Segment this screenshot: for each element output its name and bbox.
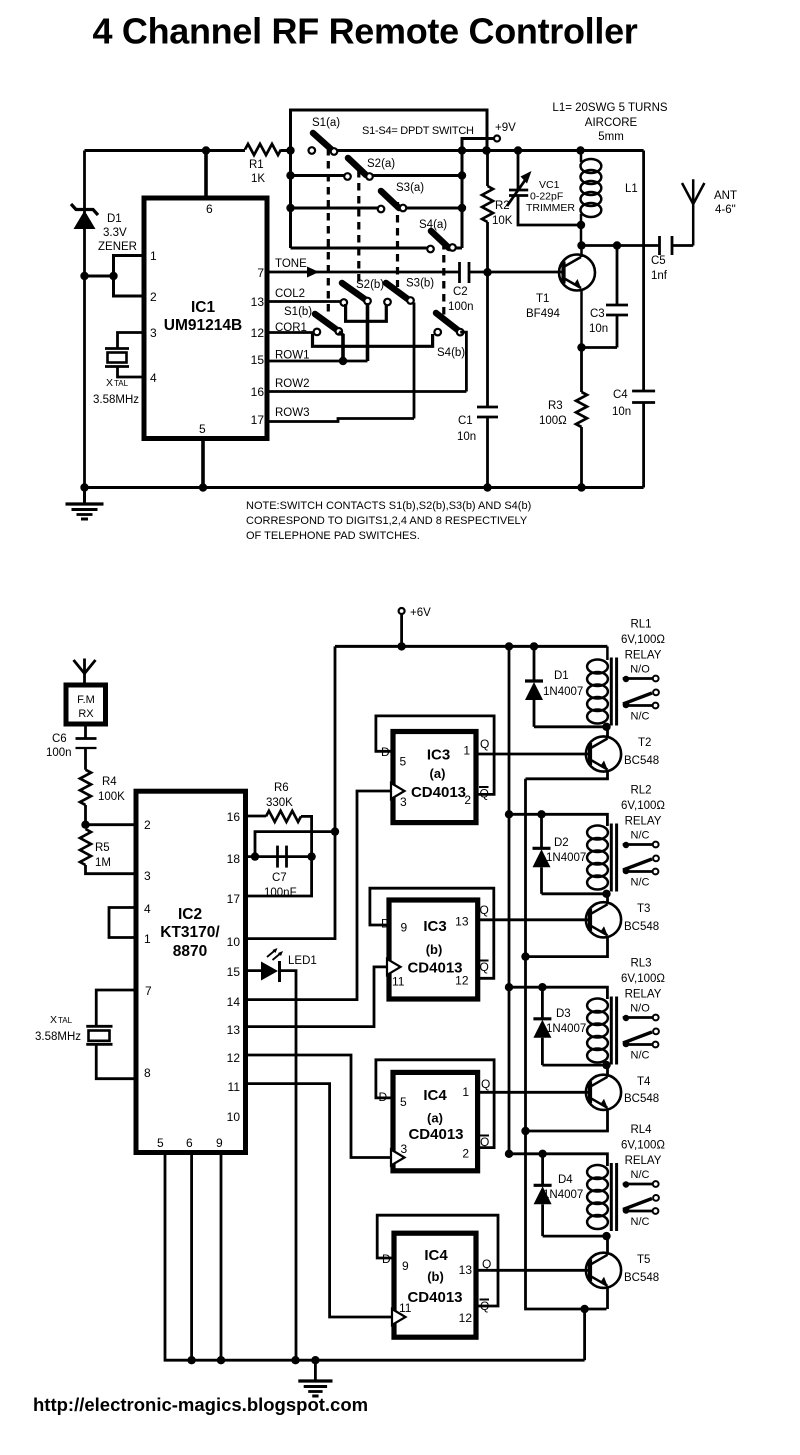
svg-text:+9V: +9V <box>495 122 516 134</box>
svg-text:RL4: RL4 <box>630 1124 652 1136</box>
node R3 gnd <box>577 483 585 491</box>
svg-text:8: 8 <box>144 1066 151 1080</box>
svg-text:7: 7 <box>257 266 264 280</box>
wire T4 emitter <box>526 1109 608 1131</box>
node gnd stub <box>311 1356 319 1364</box>
wire pin18 bracket to +6V line <box>255 832 335 857</box>
node pin18 tap <box>251 852 259 860</box>
svg-text:15: 15 <box>227 965 241 979</box>
svg-text:10: 10 <box>227 935 241 949</box>
svg-text:F.M: F.M <box>77 694 95 706</box>
wire rail to R2 <box>486 151 489 187</box>
svg-text:Q: Q <box>480 787 489 801</box>
wire T5 collector <box>606 1236 609 1255</box>
url text <box>33 1394 368 1415</box>
wire rail right <box>462 149 644 152</box>
flip-flop IC3(a) CD4013 <box>376 716 494 823</box>
svg-text:R6: R6 <box>274 782 289 794</box>
label TONE <box>275 258 307 270</box>
node RL3 feed tap <box>505 983 513 991</box>
svg-text:RL1: RL1 <box>630 619 651 631</box>
wire +6V rail <box>335 645 607 648</box>
svg-text:1N4007: 1N4007 <box>543 1189 583 1201</box>
wire R5 to pin3 <box>86 865 137 874</box>
svg-text:BC548: BC548 <box>624 755 659 767</box>
svg-text:100K: 100K <box>98 791 125 803</box>
svg-text:3: 3 <box>144 869 151 883</box>
svg-text:T3: T3 <box>637 903 650 915</box>
wire S2b right to ROW1 <box>366 303 370 361</box>
svg-text:D: D <box>382 1252 391 1266</box>
node box right corner <box>482 146 490 154</box>
svg-text:C4: C4 <box>613 389 628 401</box>
wire pin15 row <box>246 969 263 972</box>
svg-text:D1: D1 <box>554 670 569 682</box>
wire pin6 down <box>190 1153 193 1361</box>
node V2 <box>458 171 466 179</box>
wire IC3a Q to T2 <box>476 753 590 756</box>
node RL2 feed tap <box>505 810 513 818</box>
wire RL2 feed <box>509 814 607 826</box>
switch S3(b) <box>384 278 434 306</box>
svg-text:7: 7 <box>145 984 152 998</box>
wire COL2 row <box>267 300 344 303</box>
svg-text:CD4013: CD4013 <box>407 1289 462 1306</box>
wire COR1 row <box>267 331 317 334</box>
node pins1-2 tap <box>109 272 117 280</box>
svg-text:S4(a): S4(a) <box>419 219 447 231</box>
wire COR1 branch to S4b <box>313 333 433 347</box>
svg-text:T5: T5 <box>637 1254 650 1266</box>
svg-text:L1: L1 <box>625 183 638 195</box>
wire T5 emitter <box>606 1287 609 1309</box>
wire rail to VC1 <box>517 151 520 191</box>
node C7 right <box>307 852 315 860</box>
node R4 R5 <box>81 821 89 829</box>
diode D2 1N4007 <box>533 814 607 894</box>
crystal XTAL RX <box>35 1014 113 1044</box>
svg-text:S3(a): S3(a) <box>396 182 424 194</box>
svg-text:NOTE:SWITCH CONTACTS S1(b),S2(: NOTE:SWITCH CONTACTS S1(b),S2(b),S3(b) A… <box>246 500 531 512</box>
node +6V line tap <box>331 827 339 835</box>
svg-text:10n: 10n <box>589 323 608 335</box>
svg-text:S1(a): S1(a) <box>312 117 340 129</box>
svg-text:18: 18 <box>227 852 241 866</box>
antenna RX <box>74 659 96 686</box>
svg-text:C2: C2 <box>453 286 468 298</box>
svg-text:N/C: N/C <box>631 711 650 723</box>
svg-text:S2(a): S2(a) <box>367 158 395 170</box>
svg-text:D3: D3 <box>556 1008 571 1020</box>
flip-flop IC4(b) CD4013 <box>377 1215 498 1337</box>
svg-text:UM91214B: UM91214B <box>164 317 242 334</box>
svg-text:ZENER: ZENER <box>98 241 137 253</box>
wire ROW1 row <box>267 360 368 363</box>
node emitter T5 gnd tap <box>580 1305 588 1313</box>
IC UM91214B IC1 box <box>144 198 267 439</box>
svg-text:S2(b): S2(b) <box>356 279 384 291</box>
svg-text:Q: Q <box>480 737 489 751</box>
wire +9V feed vertical <box>462 139 497 249</box>
node C3 top <box>613 241 621 249</box>
svg-text:D: D <box>379 1090 388 1104</box>
svg-text:BC548: BC548 <box>624 1272 659 1284</box>
wire S4b right to ROW2 <box>460 332 466 391</box>
diode D4 1N4007 <box>534 1154 607 1236</box>
flip-flop IC4(a) CD4013 <box>376 1060 494 1171</box>
svg-text:TAL: TAL <box>58 1016 73 1025</box>
wire R2 to C1 <box>486 222 489 407</box>
svg-text:S1(b): S1(b) <box>284 306 312 318</box>
linkage S3 dashed <box>396 202 399 287</box>
svg-text:13: 13 <box>227 1023 241 1037</box>
svg-text:Q: Q <box>480 1299 489 1313</box>
node rail tap <box>80 272 88 280</box>
label ROW1 <box>275 350 310 362</box>
svg-text:11: 11 <box>228 1080 241 1094</box>
switch S1(b) <box>314 314 343 335</box>
node pin9 gnd <box>217 1356 225 1364</box>
svg-text:S3(b): S3(b) <box>406 278 434 290</box>
svg-text:12: 12 <box>251 326 265 340</box>
svg-text:(a): (a) <box>430 766 446 781</box>
terminal +6V <box>399 607 432 646</box>
switch S4(a) <box>419 219 456 252</box>
switch S1(a) <box>309 117 341 155</box>
wire IC1 pin 6 riser <box>204 151 208 199</box>
svg-text:T2: T2 <box>638 737 651 749</box>
svg-text:1: 1 <box>462 1085 469 1099</box>
svg-text:6V,100Ω: 6V,100Ω <box>621 1140 665 1152</box>
svg-text:S1-S4= DPDT SWITCH: S1-S4= DPDT SWITCH <box>362 125 474 137</box>
svg-text:1K: 1K <box>251 173 265 185</box>
wire LED to down <box>280 971 297 1361</box>
svg-text:9: 9 <box>402 1259 409 1273</box>
wire R6 to vertical <box>301 816 312 856</box>
arrow TONE <box>307 267 319 278</box>
label COL2 <box>275 288 305 300</box>
svg-text:17: 17 <box>251 413 265 427</box>
svg-text:330K: 330K <box>266 797 293 809</box>
label COR1 <box>275 322 307 334</box>
wire pin16 row <box>246 815 267 818</box>
zener diode D1 3.3V <box>71 204 137 253</box>
LED LED1 <box>261 948 317 982</box>
wire pin18 row <box>246 855 312 858</box>
wire pin5 down <box>165 1153 585 1361</box>
svg-text:100n: 100n <box>448 301 474 313</box>
svg-text:8870: 8870 <box>173 943 207 960</box>
svg-text:5: 5 <box>157 1136 164 1150</box>
svg-text:Q: Q <box>480 960 489 974</box>
wire pin13 to IC3b clock <box>246 967 388 1027</box>
svg-text:D1: D1 <box>107 213 122 225</box>
svg-text:13: 13 <box>251 295 265 309</box>
node +6V stub <box>397 642 405 650</box>
svg-text:LED1: LED1 <box>288 955 317 967</box>
wire emitter to R3 <box>580 348 583 393</box>
svg-text:10n: 10n <box>457 431 476 443</box>
svg-text:12: 12 <box>227 1051 241 1065</box>
wire R4 to node <box>84 805 87 825</box>
svg-text:N/C: N/C <box>631 877 650 889</box>
svg-text:TAL: TAL <box>114 379 129 388</box>
relay RL4 <box>587 1124 665 1231</box>
svg-text:2: 2 <box>150 290 157 304</box>
wire S1b right to ROW1 <box>339 332 343 361</box>
svg-text:9: 9 <box>401 921 408 935</box>
svg-text:1: 1 <box>150 249 157 263</box>
wire C2 to T1 base <box>469 271 566 274</box>
antenna ANT <box>682 179 737 245</box>
svg-text:IC4: IC4 <box>424 1247 448 1264</box>
node RL1 coil bottom <box>602 723 610 731</box>
node pin5 ground <box>199 483 207 491</box>
svg-text:2: 2 <box>464 793 471 807</box>
svg-text:L1= 20SWG 5 TURNS: L1= 20SWG 5 TURNS <box>552 102 667 114</box>
capacitor C5 <box>651 236 672 282</box>
svg-text:N/C: N/C <box>631 1216 650 1228</box>
wire S3b right to ROW3 <box>413 303 416 419</box>
svg-text:R1: R1 <box>249 159 264 171</box>
svg-text:1N4007: 1N4007 <box>543 686 583 698</box>
svg-text:N/C: N/C <box>631 830 650 842</box>
svg-text:IC3: IC3 <box>427 747 450 764</box>
wire IC2 pins 4-1 bracket <box>109 908 136 938</box>
svg-text:BC548: BC548 <box>624 1093 659 1105</box>
svg-text:C5: C5 <box>651 255 666 267</box>
wire TX ground rail <box>85 486 644 489</box>
wire rail to RL1 coil <box>606 646 609 660</box>
node box row3 <box>286 204 294 212</box>
wire emitter bus <box>526 779 607 1309</box>
wire RL4 feed <box>509 1154 607 1166</box>
node rail dist <box>505 642 513 650</box>
wire IC3b Q to T3 <box>478 918 590 921</box>
wire C5 to antenna <box>672 244 693 247</box>
resistor R3 <box>539 392 587 427</box>
svg-text:3: 3 <box>150 326 157 340</box>
svg-text:3.58MHz: 3.58MHz <box>93 394 139 406</box>
wire S2a right <box>372 174 462 177</box>
wire C6 to R4 <box>84 748 87 770</box>
wire pin11 to IC4b clock <box>246 1084 393 1317</box>
wire crystal to pin4 <box>118 367 145 378</box>
svg-text:1M: 1M <box>95 857 111 869</box>
svg-text:BF494: BF494 <box>526 308 560 320</box>
svg-text:N/C: N/C <box>631 1050 650 1062</box>
wire T1 collector <box>580 246 583 258</box>
node pin6 gnd <box>187 1356 195 1364</box>
wire R3 to ground <box>580 427 583 488</box>
transistor T2 BC548 <box>586 736 659 771</box>
transistor T1 BF494 <box>526 255 595 321</box>
wire RL3 feed <box>509 987 607 999</box>
label S1-S4 DPDT <box>362 125 474 137</box>
svg-text:N/C: N/C <box>631 1169 650 1181</box>
node RL3 coil bottom <box>602 1061 610 1069</box>
wire pin2 row <box>86 823 137 826</box>
svg-text:4 Channel RF Remote Controller: 4 Channel RF Remote Controller <box>92 11 637 52</box>
wire top row from rail to R1 <box>85 149 246 152</box>
node D4 feed <box>538 1150 546 1158</box>
svg-text:TONE: TONE <box>275 258 307 270</box>
wire S4a row <box>291 247 431 250</box>
svg-text:Q: Q <box>480 903 489 917</box>
svg-text:14: 14 <box>227 995 241 1009</box>
svg-text:T1: T1 <box>536 293 549 305</box>
svg-text:3: 3 <box>400 795 407 809</box>
wire T2 collector <box>606 727 609 739</box>
svg-text:6V,100Ω: 6V,100Ω <box>621 800 665 812</box>
svg-text:RL2: RL2 <box>630 785 651 797</box>
switch box outline <box>291 110 488 248</box>
capacitor C6 <box>46 733 97 759</box>
ground symbol RX <box>298 1360 332 1396</box>
svg-text:ROW3: ROW3 <box>275 407 310 419</box>
svg-text:3.58MHz: 3.58MHz <box>35 1031 81 1043</box>
ground symbol TX <box>66 488 104 520</box>
resistor R2 <box>482 186 513 227</box>
switch S2(a) <box>344 158 395 180</box>
switch S3(a) <box>378 182 425 212</box>
wire T3 collector <box>606 894 609 905</box>
transistor T4 BC548 <box>586 1075 659 1110</box>
relay RL3 <box>587 958 665 1065</box>
wire collector row <box>582 244 660 247</box>
node RL4 feed tap <box>505 1150 513 1158</box>
svg-text:CORRESPOND TO DIGITS1,2,4 AND: CORRESPOND TO DIGITS1,2,4 AND 8 RESPECTI… <box>246 515 528 527</box>
svg-text:11: 11 <box>392 975 405 989</box>
svg-text:1: 1 <box>463 744 470 758</box>
svg-text:9: 9 <box>216 1136 223 1150</box>
svg-text:(a): (a) <box>427 1111 443 1126</box>
wire IC1 pin5 down <box>201 439 205 488</box>
diode D3 1N4007 <box>533 987 606 1065</box>
flip-flop IC3(b) CD4013 <box>370 888 494 999</box>
node L1 bottom <box>577 221 585 229</box>
wire FMRX to C6 <box>84 725 87 739</box>
node rail left <box>80 483 88 491</box>
label ROW3 <box>275 407 310 419</box>
resistor R1 <box>245 144 281 185</box>
svg-text:5: 5 <box>400 755 407 769</box>
svg-text:5mm: 5mm <box>598 131 624 143</box>
svg-text:RX: RX <box>78 708 94 720</box>
svg-text:R3: R3 <box>548 400 563 412</box>
resistor R4 <box>80 770 125 805</box>
svg-text:VC1: VC1 <box>539 179 560 191</box>
svg-text:IC4: IC4 <box>423 1087 447 1104</box>
svg-text:ROW2: ROW2 <box>275 378 310 390</box>
svg-text:100Ω: 100Ω <box>539 415 567 427</box>
svg-text:Q: Q <box>480 1135 489 1149</box>
node LED gnd <box>291 1356 299 1364</box>
svg-text:D: D <box>381 745 390 759</box>
svg-text:10K: 10K <box>492 215 513 227</box>
node rail VC1 <box>514 146 522 154</box>
node T3 emitter tap <box>521 952 529 960</box>
linkage S4 dashed <box>442 242 445 318</box>
svg-text:IC2: IC2 <box>178 906 202 923</box>
svg-text:CD4013: CD4013 <box>408 1126 463 1143</box>
label S1(b) <box>284 306 312 318</box>
wire tap to rail <box>85 275 114 278</box>
svg-text:6: 6 <box>186 1136 193 1150</box>
node V1 <box>458 146 466 154</box>
svg-text:C3: C3 <box>590 308 605 320</box>
label ROW2 <box>275 378 310 390</box>
svg-text:4: 4 <box>144 902 151 916</box>
wire TONE row <box>267 271 460 274</box>
svg-text:2: 2 <box>144 818 151 832</box>
transistor T3 BC548 <box>586 902 659 937</box>
wire R1 to switch box <box>281 149 291 152</box>
svg-text:S4(b): S4(b) <box>437 347 465 359</box>
node collector junction <box>577 241 585 249</box>
node rail R2 <box>482 146 490 154</box>
terminal +9V <box>494 122 516 142</box>
switch S4(b) <box>434 313 465 359</box>
capacitor C3 <box>589 305 628 335</box>
wire pin3 to crystal <box>118 333 145 349</box>
svg-text:KT3170/: KT3170/ <box>160 924 220 941</box>
node box row1 <box>286 146 294 154</box>
note text <box>246 500 531 542</box>
svg-text:6V,100Ω: 6V,100Ω <box>621 634 665 646</box>
capacitor C7 <box>264 846 297 899</box>
svg-text:D4: D4 <box>558 1174 573 1186</box>
wire IC1 pins 1-2 bracket <box>114 256 145 297</box>
wire pin12 to IC4a clock <box>246 1055 392 1158</box>
wire left +9V rail to ground <box>83 151 86 488</box>
svg-text:+6V: +6V <box>410 607 431 619</box>
svg-text:5: 5 <box>199 422 206 436</box>
wire T3 emitter <box>526 936 608 956</box>
svg-text:2: 2 <box>462 1147 469 1161</box>
wire T2 emitter <box>526 771 608 779</box>
inductor L1 <box>581 151 638 246</box>
svg-text:COL2: COL2 <box>275 288 305 300</box>
svg-text:RELAY: RELAY <box>625 989 662 1001</box>
svg-text:R4: R4 <box>102 776 117 788</box>
IC KT3170/8870 IC2 box <box>136 791 246 1152</box>
svg-text:4-6": 4-6" <box>715 204 736 216</box>
svg-text:RELAY: RELAY <box>625 650 662 662</box>
svg-text:R5: R5 <box>95 842 110 854</box>
node rail L1 <box>576 146 584 154</box>
svg-text:RL3: RL3 <box>630 958 651 970</box>
svg-text:N/O: N/O <box>630 664 650 676</box>
wire T1 emitter down <box>580 289 583 348</box>
svg-text:TRIMMER: TRIMMER <box>526 202 575 214</box>
svg-text:17: 17 <box>227 892 241 906</box>
resistor R5 <box>80 829 111 869</box>
transistor T5 BC548 <box>586 1253 659 1288</box>
svg-text:11: 11 <box>399 1301 412 1315</box>
node pin6 junction <box>202 146 210 154</box>
svg-text:13: 13 <box>459 1263 473 1277</box>
svg-text:1N4007: 1N4007 <box>546 1023 586 1035</box>
svg-text:15: 15 <box>251 353 265 367</box>
wire C3 leads <box>616 246 619 348</box>
wire C3 bottom to emitter <box>582 346 618 349</box>
wire S4a right <box>455 247 462 250</box>
svg-text:AIRCORE: AIRCORE <box>585 117 638 129</box>
svg-text:IC1: IC1 <box>191 299 216 316</box>
svg-text:5: 5 <box>400 1095 407 1109</box>
svg-text:3.3V: 3.3V <box>103 227 127 239</box>
